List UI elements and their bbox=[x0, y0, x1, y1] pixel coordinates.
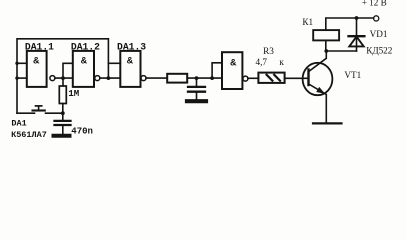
ground bar left bbox=[54, 134, 70, 138]
capacitor mid stub bbox=[196, 78, 198, 86]
svg-text:4,7: 4,7 bbox=[256, 57, 268, 67]
pushbutton wire left seg bbox=[17, 112, 35, 114]
wire collector to diode anode bbox=[326, 50, 356, 52]
capacitor mid plate1 bbox=[188, 86, 205, 88]
gate DA1.4 box bbox=[222, 52, 242, 89]
svg-text:К1: К1 bbox=[302, 17, 313, 27]
capacitor mid lower stub bbox=[196, 93, 198, 99]
terminal +12V bbox=[374, 16, 379, 21]
svg-text:VT1: VT1 bbox=[344, 70, 361, 80]
transistor VT1 circle bbox=[303, 63, 333, 95]
wire 1M bottom to cap bbox=[62, 104, 64, 120]
diode VD1 wire bbox=[356, 18, 358, 51]
gate DA1.2 output bubble bbox=[95, 76, 100, 81]
node junction gate4 feed bbox=[210, 76, 214, 80]
wire R3 to base bbox=[285, 77, 308, 79]
svg-text:DA1.2: DA1.2 bbox=[71, 41, 100, 52]
svg-text:VD1: VD1 bbox=[370, 29, 388, 39]
svg-text:&: & bbox=[127, 56, 133, 67]
wire gate4 out to R3 bbox=[248, 77, 259, 79]
wire gate4 upper input feed bbox=[212, 63, 222, 78]
capacitor 470n plate2 bbox=[55, 124, 71, 126]
svg-text:R3: R3 bbox=[263, 46, 274, 56]
svg-text:DA1: DA1 bbox=[11, 119, 26, 129]
wire DA1.1 out to DA1.2 bbox=[55, 77, 73, 79]
transistor VT1 emitter arrow bbox=[316, 87, 325, 94]
node DA1.1 input junction lower bbox=[15, 76, 18, 79]
gate DA1.3 output bubble bbox=[141, 76, 146, 81]
gate DA1.4 output bubble bbox=[243, 76, 248, 81]
wire resistor to gate4 bbox=[187, 77, 222, 79]
wire DA1.1 upper input stub bbox=[17, 62, 27, 64]
wire DA1.3 upper input stub bbox=[108, 62, 120, 64]
pushbutton contact bar bbox=[33, 109, 45, 111]
wire feedback top rail bbox=[17, 39, 108, 113]
relay K1 coil bbox=[313, 30, 339, 40]
wire coil top to +12V rail bbox=[326, 18, 374, 30]
transistor VT1 emitter bbox=[309, 84, 327, 123]
ground bar mid bbox=[187, 99, 206, 103]
resistor 1M (vertical) bbox=[59, 86, 66, 104]
svg-text:1М: 1М bbox=[68, 89, 79, 99]
gate DA1.1 box bbox=[27, 51, 47, 87]
svg-text:+ 12 В: + 12 В bbox=[362, 0, 387, 8]
gate DA1.1 output bubble bbox=[50, 76, 55, 81]
wire DA1.3 out to resistor bbox=[146, 77, 167, 79]
diode VD1 cathode bar bbox=[349, 35, 365, 37]
svg-text:&: & bbox=[81, 56, 87, 67]
node junction diode top bbox=[355, 16, 359, 20]
ground line emitter bbox=[313, 122, 342, 124]
svg-text:к: к bbox=[279, 57, 284, 67]
pushbutton actuator bbox=[38, 106, 40, 110]
node junction feedback bbox=[107, 76, 111, 80]
node junction DA1.2 input bbox=[61, 76, 65, 80]
gate DA1.3 box bbox=[120, 51, 140, 87]
diode VD1 triangle bbox=[349, 37, 363, 47]
svg-text:DA1.1: DA1.1 bbox=[25, 41, 54, 52]
pushbutton wire right seg bbox=[46, 112, 63, 114]
svg-text:КД522: КД522 bbox=[366, 46, 393, 56]
node junction cap bbox=[195, 76, 199, 80]
resistor timing (horizontal) bbox=[167, 74, 187, 83]
node junction button/cap bbox=[61, 111, 65, 115]
gate DA1.2 box bbox=[73, 51, 94, 87]
wire DA1.2 upper input feed bbox=[63, 63, 73, 86]
wire DA1.1 lower input stub bbox=[17, 77, 27, 79]
capacitor 470n lower stub bbox=[62, 126, 64, 134]
node junction collector/diode bbox=[324, 49, 328, 53]
capacitor 470n plate1 bbox=[55, 120, 71, 122]
transistor VT1 base bar bbox=[307, 70, 309, 86]
capacitor mid plate2 bbox=[188, 91, 205, 93]
node DA1.1 input junction upper bbox=[15, 62, 18, 65]
svg-text:&: & bbox=[33, 56, 39, 67]
svg-text:DA1.3: DA1.3 bbox=[117, 41, 146, 52]
svg-text:К561ЛА7: К561ЛА7 bbox=[11, 130, 47, 140]
svg-text:&: & bbox=[230, 58, 236, 69]
transistor VT1 collector bbox=[309, 51, 327, 72]
resistor R3 box bbox=[258, 73, 284, 83]
resistor R3 power marks bbox=[267, 75, 273, 81]
wire DA1.2 out to DA1.3 bbox=[100, 77, 121, 79]
svg-text:470n: 470n bbox=[71, 127, 93, 137]
